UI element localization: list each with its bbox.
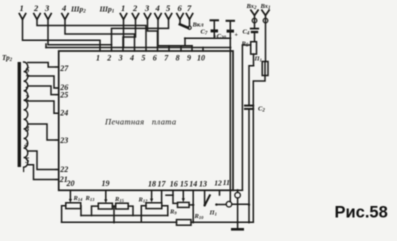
wire board pin 12 down xyxy=(219,190,221,195)
svg-text:5: 5 xyxy=(141,54,145,63)
svg-text:27: 27 xyxy=(59,64,69,73)
connector Shr1 pin 6 xyxy=(177,14,183,20)
switch Vkl contact circle on Shr1.7 xyxy=(189,19,191,26)
svg-text:7: 7 xyxy=(187,3,192,13)
capacitor C4 xyxy=(251,29,258,42)
svg-text:16: 16 xyxy=(170,179,178,188)
svg-text:Вкл: Вкл xyxy=(192,22,205,29)
svg-text:5: 5 xyxy=(25,156,29,165)
svg-text:4: 4 xyxy=(155,3,160,13)
wire tap to pin 23 xyxy=(28,124,59,140)
svg-text:Шр2: Шр2 xyxy=(70,5,86,15)
svg-text:3: 3 xyxy=(44,3,50,13)
wire board pin 14 down to ground bus xyxy=(192,190,194,222)
wire Shr2.4 to board pin 4 xyxy=(65,19,135,51)
potentiometer R9 xyxy=(178,202,194,207)
transformer Tr2 core xyxy=(18,62,21,167)
svg-text:7: 7 xyxy=(25,73,30,82)
svg-text:+C20: +C20 xyxy=(213,33,227,41)
wire Shr1.2 to board pin 3 xyxy=(123,19,136,51)
node pot junction drop xyxy=(113,206,115,222)
wire Shr2.1 to board pin 1 xyxy=(23,19,101,51)
wire board pin 16 to R9 left xyxy=(173,190,178,203)
svg-text:П1: П1 xyxy=(254,56,262,63)
svg-text:Тр2: Тр2 xyxy=(2,54,13,63)
svg-text:Вх1: Вх1 xyxy=(260,3,271,11)
svg-text:2: 2 xyxy=(106,54,111,63)
wire Shr1.1 down to low bus xyxy=(123,19,125,47)
potentiometer R14 xyxy=(62,203,81,223)
wire Shr2.2 to board pin 5 xyxy=(37,19,146,51)
svg-text:R9: R9 xyxy=(169,209,177,216)
svg-text:C7: C7 xyxy=(201,29,208,37)
wire board pin 7 drop xyxy=(168,46,170,51)
svg-text:1: 1 xyxy=(20,3,24,13)
printed circuit board box xyxy=(59,51,233,190)
wire Shr2.3 to pin2 vertical xyxy=(48,19,112,44)
connector Shr2 pin 3 xyxy=(45,14,51,20)
svg-text:R13: R13 xyxy=(85,195,96,202)
transformer Tr2 winding xyxy=(24,62,28,167)
svg-text:22: 22 xyxy=(59,165,68,174)
wire Shr1.3 to board pin 6 xyxy=(148,19,158,51)
svg-text:R14: R14 xyxy=(73,195,84,202)
wire R5 left tap down right side xyxy=(242,45,250,190)
svg-text:1: 1 xyxy=(96,54,100,63)
left pin ticks xyxy=(56,67,59,180)
capacitor C2 xyxy=(245,106,253,205)
connector Shr2 pin 2 xyxy=(34,14,40,20)
wire stub at bus left end xyxy=(45,44,47,48)
svg-text:23: 23 xyxy=(59,136,68,145)
wire C2 branch to ground bus xyxy=(248,205,250,223)
wire low bus to right elbow xyxy=(46,47,230,49)
wire right side drop C20 bus to jack circle2 xyxy=(229,38,231,201)
fuse Pr1 xyxy=(253,62,268,223)
svg-text:5: 5 xyxy=(166,3,171,13)
switch P1 lever xyxy=(203,204,205,206)
wire capacitor bottom bus with jog to board pin 8 xyxy=(181,38,231,51)
svg-text:C4: C4 xyxy=(243,29,250,37)
connector Shr1 pin 1 xyxy=(120,14,126,20)
svg-text:4: 4 xyxy=(23,140,28,149)
winding bottom stub xyxy=(23,167,25,171)
wire bus 45.7 pins 7-9 xyxy=(158,45,192,47)
wire board pin 13 to switch P1 pivot xyxy=(204,190,206,204)
svg-text:18: 18 xyxy=(148,179,156,188)
wire board pin 17 down to R12 top right xyxy=(161,190,163,203)
svg-text:C2: C2 xyxy=(258,106,265,114)
svg-text:6: 6 xyxy=(153,54,157,63)
jack terminal circle2 xyxy=(226,201,232,207)
svg-text:R12: R12 xyxy=(138,197,149,204)
svg-text:7: 7 xyxy=(164,54,169,63)
svg-text:25: 25 xyxy=(59,91,68,100)
svg-text:R15: R15 xyxy=(114,196,125,203)
svg-text:12: 12 xyxy=(214,178,222,187)
svg-text:9: 9 xyxy=(187,54,191,63)
svg-text:10: 10 xyxy=(197,54,205,63)
potentiometer R15 xyxy=(116,203,133,215)
wire tap to pin 25 xyxy=(28,86,59,95)
svg-text:20: 20 xyxy=(66,179,75,188)
svg-text:3: 3 xyxy=(144,3,150,13)
svg-text:17: 17 xyxy=(158,179,167,188)
connector Shr1 pin 2 xyxy=(132,14,138,20)
wire board pin 15 to R9 wiper xyxy=(182,190,184,198)
wire Shr1.4 to bus 45.7 xyxy=(157,19,159,45)
svg-text:8: 8 xyxy=(176,54,180,63)
svg-text:Печатная плата: Печатная плата xyxy=(104,117,177,127)
svg-text:П1: П1 xyxy=(209,210,217,217)
resistor R5 xyxy=(251,42,257,66)
connector Shr1 pin 7 xyxy=(186,14,192,20)
resistor R10 xyxy=(177,220,192,226)
capacitor C20 xyxy=(227,21,234,39)
svg-text:1: 1 xyxy=(121,3,125,13)
wire Shr1.5 bus to board pin 2 xyxy=(112,19,169,51)
jack Vx1 xyxy=(262,10,269,61)
svg-text:4: 4 xyxy=(61,3,66,13)
svg-text:3: 3 xyxy=(24,124,29,133)
svg-text:6: 6 xyxy=(178,3,183,13)
svg-text:Рис.58: Рис.58 xyxy=(335,204,388,222)
svg-text:R10: R10 xyxy=(194,213,205,220)
connector Shr2 pin 4 xyxy=(62,14,68,20)
svg-text:15: 15 xyxy=(180,179,188,188)
node P1 contact xyxy=(215,203,217,205)
svg-text:14: 14 xyxy=(189,179,197,188)
svg-text:R5: R5 xyxy=(241,41,249,49)
wire tap to pin 26 xyxy=(28,76,59,88)
wire board pin 19 to potentiometer R13 wiper xyxy=(105,190,107,200)
svg-text:2: 2 xyxy=(24,93,29,102)
svg-text:13: 13 xyxy=(199,179,207,188)
wire board pin 18 to potentiometer R12 wiper xyxy=(151,190,153,199)
svg-text:Вх2: Вх2 xyxy=(246,3,258,11)
svg-text:2: 2 xyxy=(33,3,39,13)
wire tap to pin 24 xyxy=(28,101,59,113)
switch Vkl lever xyxy=(179,19,181,24)
connector Shr2 pin 1 xyxy=(19,14,25,20)
potentiometer R13 xyxy=(92,203,116,215)
capacitor C7 xyxy=(211,20,218,38)
svg-text:19: 19 xyxy=(102,179,110,188)
svg-text:+: + xyxy=(235,33,239,39)
ground bus wire xyxy=(62,221,177,223)
svg-text:24: 24 xyxy=(59,109,68,118)
connector Shr1 pin 4 xyxy=(155,14,161,20)
svg-text:4: 4 xyxy=(129,54,134,63)
connector Shr1 pin 5 xyxy=(165,14,171,20)
wire R5 bottom jog to C2 branch xyxy=(249,66,254,106)
ground xyxy=(232,222,242,229)
wire tap top to pin 27 xyxy=(28,63,59,68)
jack Vx2 xyxy=(251,10,258,28)
potentiometer R12 xyxy=(141,203,168,223)
wire board pin 20 to potentiometer R14 wiper xyxy=(69,190,71,199)
wire mid bus xyxy=(81,215,168,217)
wire tap to pin 22 xyxy=(28,151,59,170)
wire tap bottom to pin 21 xyxy=(28,165,59,180)
jack terminal circle1 xyxy=(235,190,241,222)
svg-text:3: 3 xyxy=(118,54,123,63)
connector Shr1 pin 3 xyxy=(144,14,150,20)
wire stub near pin 16 xyxy=(166,194,173,196)
svg-text:11: 11 xyxy=(223,178,230,187)
wire board pin 10 drop xyxy=(202,48,204,52)
wire box corner extension to R5 tap drop xyxy=(233,189,242,191)
svg-text:Шр1: Шр1 xyxy=(99,5,115,15)
svg-text:2: 2 xyxy=(132,3,138,13)
